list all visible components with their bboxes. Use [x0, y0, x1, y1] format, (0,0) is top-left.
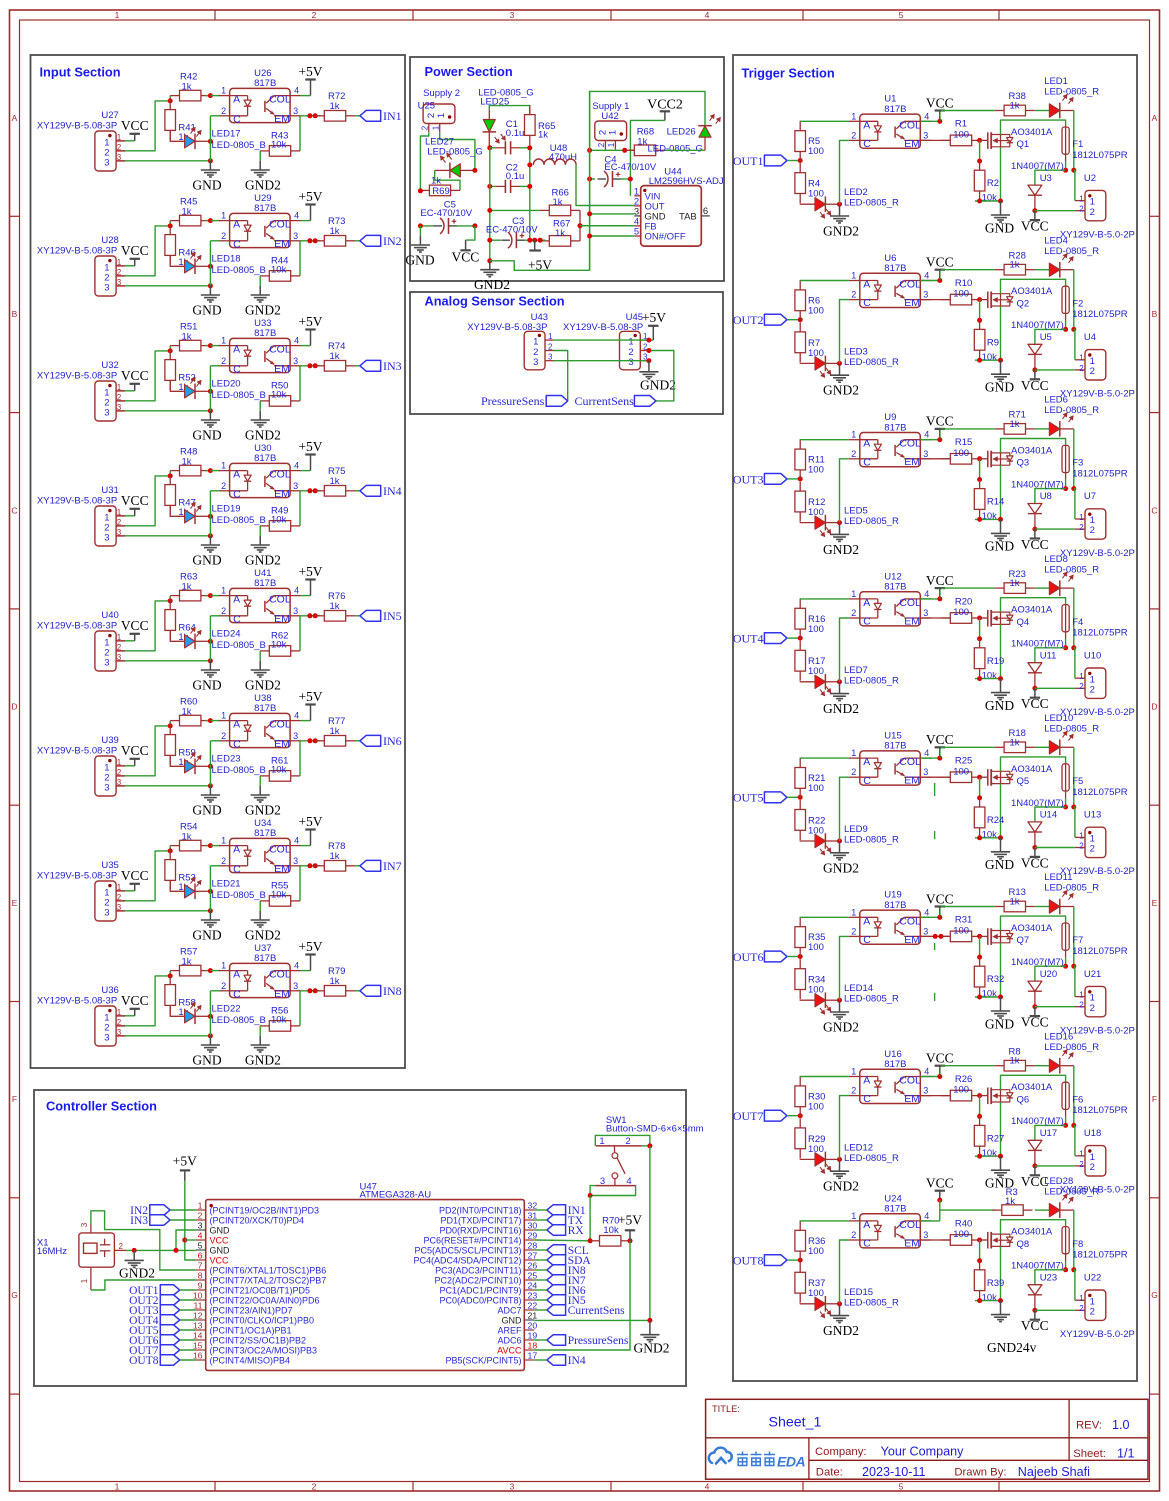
pin 7 (PCINT6/XTAL1/TOSC1)PB6: [196, 1269, 206, 1271]
wire: [1001, 598, 1066, 612]
svg-text:VCC: VCC: [121, 118, 149, 133]
net flag IN1: [360, 110, 381, 121]
junction: [587, 234, 592, 239]
wire: [1035, 210, 1075, 212]
wire: [210, 720, 220, 722]
svg-text:EM: EM: [274, 488, 290, 500]
svg-text:OUT2: OUT2: [733, 313, 764, 327]
junction: [587, 148, 592, 153]
power symbol VCC: [134, 759, 136, 766]
wire: [1001, 916, 1066, 930]
svg-text:LED-0805_R: LED-0805_R: [1044, 1186, 1099, 1197]
svg-text:100: 100: [953, 1085, 969, 1096]
wire: [1035, 1270, 1066, 1285]
svg-text:3: 3: [198, 1221, 203, 1231]
svg-text:1k: 1k: [182, 832, 192, 843]
svg-text:817B: 817B: [884, 422, 906, 433]
svg-text:+5V: +5V: [298, 689, 322, 704]
svg-text:GND: GND: [985, 539, 1014, 554]
junction: [977, 775, 982, 780]
svg-text:XY129V-B-5.08-3P: XY129V-B-5.08-3P: [37, 371, 117, 382]
svg-text:C: C: [233, 363, 241, 375]
junction: [798, 1258, 803, 1263]
wire: [209, 866, 211, 911]
net flag IN3: [150, 1215, 170, 1225]
junction: [487, 145, 492, 150]
svg-text:XY129V-B-5.0-2P: XY129V-B-5.0-2P: [1060, 548, 1135, 559]
svg-text:100: 100: [808, 783, 824, 794]
svg-text:28: 28: [528, 1241, 538, 1251]
junction: [646, 338, 651, 343]
svg-text:ADC6: ADC6: [497, 1335, 521, 1345]
resistor R59: [169, 725, 171, 735]
svg-text:A: A: [863, 438, 870, 450]
ground GND symbol: [201, 169, 220, 171]
svg-text:1N4007(M7): 1N4007(M7): [1011, 639, 1064, 650]
wire: [1074, 966, 1075, 996]
ground GND symbol: [201, 669, 220, 671]
wire: [210, 990, 220, 992]
wire: [489, 106, 530, 116]
junction: [798, 317, 803, 322]
svg-text:1: 1: [221, 461, 226, 471]
junction: [208, 264, 213, 269]
svg-text:AO3401A: AO3401A: [1011, 1227, 1053, 1238]
svg-text:EM: EM: [904, 138, 920, 150]
svg-text:PC5(ADC5/SCL/PCINT13): PC5(ADC5/SCL/PCINT13): [414, 1245, 521, 1255]
junction: [1063, 645, 1068, 650]
wire: [589, 91, 591, 270]
power symbol +5V: [310, 330, 312, 346]
wire: [920, 299, 950, 301]
junction: [977, 456, 982, 461]
svg-text:Button-SMD-6×6×5mm: Button-SMD-6×6×5mm: [606, 1124, 704, 1135]
svg-text:4: 4: [294, 86, 299, 96]
svg-text:100: 100: [953, 289, 969, 300]
connector U43 XY129V-B-5.08-3P: [524, 331, 545, 370]
pin 31 PD1(TXD/PCINT17): [524, 1219, 534, 1221]
pin 30 PD0(RXD/PCINT16): [524, 1229, 534, 1231]
resistor R34: [799, 959, 801, 969]
wire: [210, 970, 220, 972]
svg-text:LED14: LED14: [844, 983, 873, 994]
ground GND symbol: [201, 419, 220, 421]
power symbol VCC: [134, 134, 136, 141]
svg-text:A: A: [863, 915, 870, 927]
wire: [1035, 1125, 1066, 1140]
wire: [534, 1219, 547, 1221]
svg-text:+5V: +5V: [528, 258, 552, 273]
svg-text:R10: R10: [955, 278, 972, 289]
optocoupler U19 817B: [860, 910, 921, 944]
pin 15 (PCINT3/OC2A/MOSI)PB3: [196, 1349, 206, 1351]
wire: [489, 148, 491, 261]
transistor Q8 AO3401A: [980, 1239, 988, 1241]
junction: [1063, 1267, 1068, 1272]
junction: [646, 358, 651, 363]
svg-text:1: 1: [851, 1067, 856, 1077]
net flag IN8: [360, 985, 381, 996]
wire: [787, 160, 800, 162]
svg-text:9: 9: [198, 1281, 203, 1291]
wire: [554, 339, 654, 341]
svg-text:2: 2: [1090, 684, 1095, 695]
wire: [590, 149, 635, 151]
svg-text:2: 2: [221, 731, 226, 741]
svg-text:25: 25: [528, 1271, 538, 1281]
resistor R71: [995, 428, 1004, 430]
svg-text:VCC: VCC: [1021, 537, 1049, 552]
net flag IN2: [360, 235, 381, 246]
wire: [800, 439, 849, 441]
wire: [940, 1209, 995, 1211]
svg-text:GND: GND: [210, 1225, 231, 1235]
svg-text:F: F: [12, 1094, 17, 1104]
wire: [800, 916, 849, 918]
wire: [116, 535, 125, 537]
svg-text:U17: U17: [1040, 1128, 1057, 1139]
svg-text:GND2: GND2: [823, 542, 859, 557]
svg-text:C: C: [863, 934, 871, 946]
svg-text:LED23: LED23: [212, 753, 241, 764]
svg-text:+5V: +5V: [618, 1212, 642, 1227]
wire: [355, 990, 360, 992]
wire stub: [934, 993, 936, 1001]
wire: [840, 1240, 849, 1304]
svg-text:817B: 817B: [254, 328, 276, 339]
wire: [1035, 906, 1050, 908]
junction: [168, 723, 173, 728]
junction: [837, 1157, 842, 1162]
diode U8 1N4007(M7): [1028, 504, 1042, 514]
svg-text:22: 22: [528, 1301, 538, 1311]
svg-text:LED18: LED18: [212, 253, 241, 264]
svg-text:U18: U18: [1084, 1128, 1101, 1139]
svg-text:LED-0805_R: LED-0805_R: [844, 198, 899, 209]
fuse F5 1812L075PR: [1062, 764, 1069, 791]
power symbol VCC: [1034, 848, 1036, 857]
LED LED28 LED-0805_R: [1049, 1204, 1059, 1217]
svg-text:PD2(INT0/PCINT18): PD2(INT0/PCINT18): [439, 1205, 522, 1215]
svg-text:817B: 817B: [884, 900, 906, 911]
net flag OUT6: [764, 951, 787, 962]
svg-text:2: 2: [1079, 841, 1084, 850]
wire: [116, 650, 125, 652]
power symbol VCC: [939, 747, 941, 758]
resistor R17: [799, 641, 801, 651]
power symbol VCC: [939, 270, 941, 281]
svg-text:1k: 1k: [182, 582, 192, 593]
wire: [975, 359, 1001, 361]
svg-text:10k: 10k: [982, 1148, 998, 1159]
connector U13 XY129V-B-5.0-2P: [1085, 827, 1106, 857]
wire: [1001, 279, 1066, 293]
wire: [979, 300, 981, 321]
svg-text:26: 26: [528, 1261, 538, 1271]
wire: [580, 225, 634, 227]
svg-text:COL: COL: [269, 969, 291, 981]
svg-text:100: 100: [808, 942, 824, 953]
svg-text:4: 4: [198, 1231, 203, 1241]
LED LED20 LED-0805_B: [170, 380, 184, 391]
svg-text:100: 100: [808, 1246, 824, 1257]
power symbol VCC: [939, 1191, 941, 1200]
wire: [299, 1025, 301, 1027]
wire: [180, 1349, 196, 1351]
resistor R25: [941, 776, 950, 778]
junction: [977, 676, 982, 681]
optocoupler U30 817B: [230, 463, 291, 497]
svg-text:2: 2: [312, 1482, 317, 1492]
optocoupler U37 817B: [230, 963, 291, 997]
svg-text:COL: COL: [269, 469, 291, 481]
wire: [301, 990, 321, 992]
pin 16 (PCINT4/MISO)PB4: [196, 1359, 206, 1361]
wire: [116, 150, 125, 152]
ground GND2 symbol: [830, 1011, 849, 1013]
junction: [418, 223, 423, 228]
svg-text:IN4: IN4: [568, 1355, 586, 1367]
svg-text:VCC: VCC: [926, 414, 954, 429]
wire: [1035, 1165, 1075, 1167]
connector U36 XY129V-B-5.08-3P: [95, 1006, 116, 1046]
wire: [534, 1309, 547, 1311]
wire: [1065, 798, 1067, 807]
wire stub: [934, 831, 936, 839]
junction: [977, 1114, 982, 1119]
svg-text:EM: EM: [904, 297, 920, 309]
svg-text:817B: 817B: [884, 1059, 906, 1070]
svg-text:2: 2: [1079, 682, 1084, 691]
svg-text:2: 2: [221, 606, 226, 616]
junction: [977, 1298, 982, 1303]
wire: [490, 239, 501, 241]
resistor R7: [799, 322, 801, 332]
svg-text:GND2: GND2: [474, 277, 510, 292]
svg-text:GND2: GND2: [245, 1053, 281, 1068]
svg-text:3: 3: [510, 10, 515, 20]
net flag IN5: [360, 610, 381, 621]
wire: [1000, 306, 1002, 360]
resistor R14: [979, 479, 981, 489]
svg-text:E: E: [1152, 898, 1158, 908]
diode U23 1N4007(M7): [1028, 1285, 1042, 1295]
svg-text:1812L075PR: 1812L075PR: [1072, 946, 1128, 957]
svg-text:GND: GND: [192, 678, 221, 693]
wire: [840, 140, 849, 204]
power symbol VCC: [1034, 529, 1036, 538]
junction: [132, 1248, 137, 1253]
wire: [975, 200, 1001, 202]
wire: [116, 775, 125, 777]
svg-text:LED-0805_B: LED-0805_B: [212, 390, 266, 401]
junction: [307, 738, 312, 743]
svg-text:EM: EM: [274, 363, 290, 375]
svg-text:COL: COL: [269, 594, 291, 606]
svg-text:2: 2: [1090, 525, 1095, 536]
Input Section box: [31, 55, 406, 1068]
wire: [979, 936, 981, 957]
svg-text:LED-0805_R: LED-0805_R: [1044, 246, 1099, 257]
connector U21 XY129V-B-5.0-2P: [1085, 986, 1106, 1016]
svg-text:COL: COL: [899, 1075, 921, 1087]
wire: [534, 1279, 547, 1281]
junction: [208, 908, 213, 913]
power symbol VCC: [1034, 211, 1036, 220]
svg-text:U20: U20: [1040, 969, 1057, 980]
wire: [1001, 1075, 1066, 1089]
svg-text:LED-0805_R: LED-0805_R: [1044, 564, 1099, 575]
svg-text:1: 1: [1079, 831, 1084, 840]
svg-text:1: 1: [432, 125, 441, 130]
svg-text:3: 3: [293, 356, 298, 366]
wire: [116, 640, 125, 642]
junction: [182, 1238, 187, 1243]
svg-text:GND: GND: [985, 380, 1014, 395]
svg-text:VCC2: VCC2: [647, 97, 683, 112]
svg-text:10k: 10k: [271, 890, 287, 901]
ground GND symbol: [991, 1010, 1010, 1012]
svg-text:100: 100: [808, 1101, 824, 1112]
svg-text:4: 4: [294, 961, 299, 971]
svg-text:XY129V-B-5.08-3P: XY129V-B-5.08-3P: [563, 322, 643, 333]
LED LED4 LED-0805_R: [1049, 263, 1059, 276]
svg-text:(PCINT1/OC1A)PB1: (PCINT1/OC1A)PB1: [210, 1325, 292, 1335]
svg-text:LED10: LED10: [1044, 713, 1073, 724]
svg-text:B: B: [1152, 309, 1158, 319]
svg-text:LED-0805_B: LED-0805_B: [212, 265, 266, 276]
svg-text:2023-10-11: 2023-10-11: [862, 1465, 926, 1479]
wire: [1035, 847, 1075, 849]
svg-text:VCC: VCC: [210, 1255, 230, 1265]
wire: [210, 365, 220, 367]
svg-text:3: 3: [80, 1222, 89, 1227]
junction: [1063, 486, 1068, 491]
svg-text:C: C: [233, 113, 241, 125]
wire: [589, 1196, 591, 1241]
svg-text:4: 4: [705, 1482, 710, 1492]
resistor R67: [540, 240, 549, 242]
LED LED16 LED-0805_R: [1049, 1059, 1059, 1072]
svg-text:1: 1: [1079, 991, 1084, 1000]
net flag OUT7: [764, 1110, 787, 1121]
wire: [840, 777, 849, 841]
svg-text:LED-0805_R: LED-0805_R: [844, 516, 899, 527]
svg-text:(PCINT3/OC2A/MOSI)PB3: (PCINT3/OC2A/MOSI)PB3: [210, 1345, 318, 1355]
junction: [798, 954, 803, 959]
wire: [1035, 807, 1066, 822]
svg-text:1: 1: [628, 337, 633, 348]
svg-text:+5V: +5V: [298, 564, 322, 579]
net flag OUT4: [764, 633, 787, 644]
pin 22 ADC7: [524, 1309, 534, 1311]
power symbol VCC: [134, 384, 136, 391]
pin 2 (PCINT20/XCK/T0)PD4: [196, 1219, 206, 1221]
wire: [1035, 587, 1050, 589]
svg-text:817B: 817B: [884, 582, 906, 593]
wire: [975, 1300, 1001, 1302]
svg-text:EM: EM: [274, 113, 290, 125]
svg-text:XY129V-B-5.08-3P: XY129V-B-5.08-3P: [37, 871, 117, 882]
resistor R35: [799, 917, 801, 927]
svg-text:C: C: [863, 1238, 871, 1250]
wire: [301, 365, 321, 367]
wire: [116, 285, 125, 287]
Controller Section box: [34, 1090, 686, 1386]
junction: [977, 1154, 982, 1159]
LED LED14 LED-0805_R: [800, 999, 815, 1002]
resistor R11: [799, 440, 801, 450]
wire: [1000, 784, 1002, 838]
resistor R60: [170, 720, 179, 722]
wire: [1073, 111, 1075, 171]
svg-text:LED3: LED3: [844, 346, 868, 357]
wire: [299, 366, 301, 401]
ground GND symbol: [201, 794, 220, 796]
resistor R54: [170, 845, 179, 847]
svg-text:3: 3: [104, 408, 109, 419]
ground GND2 symbol: [830, 852, 849, 854]
net flag SDA: [547, 1255, 566, 1265]
wire: [534, 1209, 547, 1211]
svg-text:VCC: VCC: [926, 891, 954, 906]
net flag SCL: [547, 1245, 566, 1255]
svg-text:1N4007(M7): 1N4007(M7): [1011, 957, 1064, 968]
svg-text:EM: EM: [904, 934, 920, 946]
ground GND2 symbol: [830, 693, 849, 695]
svg-text:4: 4: [294, 711, 299, 721]
wire: [1035, 746, 1050, 748]
resistor R76: [315, 615, 324, 617]
svg-text:13: 13: [193, 1321, 203, 1331]
svg-text:LED8: LED8: [1044, 554, 1068, 565]
svg-text:COL: COL: [269, 219, 291, 231]
wire: [420, 225, 433, 227]
svg-text:LED28: LED28: [1044, 1176, 1073, 1187]
resistor R2: [979, 161, 981, 171]
junction: [977, 358, 982, 363]
svg-text:G: G: [11, 1290, 18, 1300]
pin 24 PC1(ADC1/PCINT9): [524, 1289, 534, 1291]
svg-text:COL: COL: [899, 756, 921, 768]
net flag IN1: [547, 1205, 566, 1215]
resistor R16: [799, 599, 801, 609]
svg-text:GND2: GND2: [823, 1020, 859, 1035]
junction: [208, 968, 213, 973]
svg-text:GND: GND: [405, 252, 434, 267]
wire: [920, 757, 940, 759]
svg-text:4: 4: [924, 1067, 929, 1077]
svg-text:1k: 1k: [1010, 737, 1020, 748]
svg-text:EM: EM: [274, 238, 290, 250]
svg-text:3: 3: [923, 130, 928, 140]
wire: [534, 1299, 547, 1301]
svg-text:GND: GND: [192, 553, 221, 568]
net flag OUT5: [764, 792, 787, 803]
svg-text:(PCINT23/AIN1)PD7: (PCINT23/AIN1)PD7: [210, 1305, 293, 1315]
svg-text:A: A: [863, 119, 870, 131]
svg-text:+5V: +5V: [298, 64, 322, 79]
wire: [1035, 687, 1075, 689]
wire: [554, 351, 568, 401]
svg-text:C: C: [233, 238, 241, 250]
wire: [787, 637, 800, 639]
junction: [578, 223, 583, 228]
svg-text:Supply 2: Supply 2: [423, 88, 460, 99]
svg-text:PC0(ADC0/PCINT8): PC0(ADC0/PCINT8): [439, 1295, 521, 1305]
svg-text:0.1u: 0.1u: [506, 171, 525, 182]
fuse F3 1812L075PR: [1062, 445, 1069, 472]
